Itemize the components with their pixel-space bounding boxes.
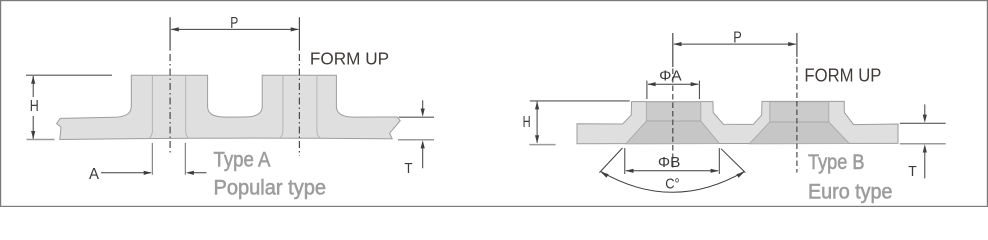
dimension P left <box>171 27 299 31</box>
svg-text:Type A: Type A <box>214 148 272 172</box>
svg-text:T: T <box>404 160 412 177</box>
svg-text:P: P <box>230 15 238 32</box>
svg-text:H: H <box>30 98 39 115</box>
hole upper bore lug1 <box>646 102 700 121</box>
svg-text:FORM UP: FORM UP <box>310 49 389 69</box>
wire hole line lug1 right <box>186 75 189 138</box>
angle C extension left <box>599 148 622 173</box>
centerline lug2 <box>298 17 300 156</box>
centerline lug2 right fig <box>796 33 798 173</box>
profile body Type A <box>57 75 401 139</box>
dimension PhiA <box>647 81 700 99</box>
A extension line left <box>151 143 153 175</box>
arc arrow right <box>736 172 744 178</box>
countersink cone lug2 <box>749 122 849 144</box>
angle C arc <box>601 172 744 193</box>
centerline lug1 right fig <box>672 33 674 171</box>
svg-text:Euro type: Euro type <box>808 179 893 203</box>
angle C extension right <box>721 149 745 173</box>
svg-text:Popular type: Popular type <box>214 176 327 200</box>
wire hole line lug2 left <box>280 75 283 138</box>
svg-text:ΦB: ΦB <box>658 155 681 171</box>
wire hole line lug2 right <box>317 75 320 138</box>
dimension PhiB <box>625 148 720 174</box>
svg-text:T: T <box>908 163 917 180</box>
centerline lug1 <box>169 17 171 155</box>
dimension H right <box>530 100 630 102</box>
svg-text:Type B: Type B <box>808 150 865 174</box>
hole upper bore lug2 <box>770 102 829 122</box>
svg-text:C°: C° <box>665 175 680 192</box>
svg-text:FORM UP: FORM UP <box>804 66 881 86</box>
A extension line right <box>184 143 186 175</box>
dimension P right <box>673 42 796 46</box>
countersink cone lug1 <box>626 121 720 144</box>
dimension T left <box>399 116 434 118</box>
dimension T right <box>900 122 946 124</box>
wire hole line lug1 left <box>149 75 152 138</box>
svg-text:P: P <box>733 30 742 47</box>
dimension H left <box>26 74 112 76</box>
arc arrow left <box>601 172 609 178</box>
profile body Type B <box>577 101 898 143</box>
svg-text:ΦA: ΦA <box>659 68 682 84</box>
svg-text:A: A <box>89 166 100 183</box>
svg-text:H: H <box>523 114 531 131</box>
